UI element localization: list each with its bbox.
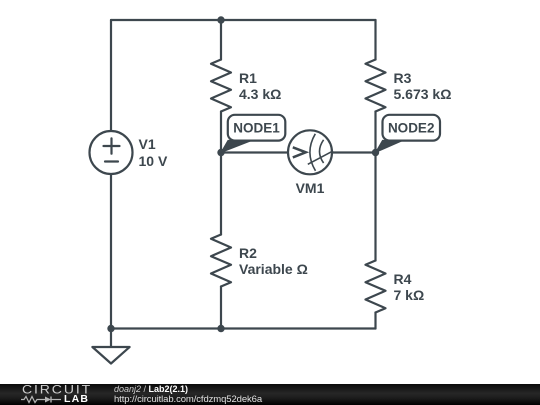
wire right branch R4 to bottom rail <box>374 313 376 329</box>
svg-text:NODE2: NODE2 <box>388 121 435 136</box>
svg-text:10 V: 10 V <box>139 153 168 169</box>
wire middle branch R2 to bottom rail <box>220 287 222 329</box>
wire middle branch top (to R1) <box>220 20 222 60</box>
CircuitLab logo text <box>22 384 92 395</box>
footer bar <box>0 384 540 405</box>
svg-text:Variable Ω: Variable Ω <box>239 261 308 277</box>
wire ground stem <box>110 329 112 348</box>
svg-text:R2: R2 <box>239 245 257 261</box>
wire middle branch R1 to NODE1 <box>220 112 222 153</box>
junction NODE2 <box>372 149 379 156</box>
resistor R2 <box>211 235 231 287</box>
junction at bottom rail / ground <box>107 325 114 332</box>
wire left vertical V1 top <box>110 20 112 131</box>
wire right branch top (to R3) <box>374 20 376 60</box>
LAB text <box>64 394 89 404</box>
resistor R3 <box>366 60 386 112</box>
junction at bottom rail / R2 branch <box>217 325 224 332</box>
footer title line <box>114 385 188 394</box>
svg-text:R4: R4 <box>394 271 412 287</box>
wire bottom horizontal rail <box>111 327 376 329</box>
junction at top rail / R1 branch <box>217 16 224 23</box>
resistor R1 <box>211 60 231 112</box>
ground <box>92 347 129 364</box>
svg-text:R3: R3 <box>394 70 412 86</box>
wire right branch R3 to NODE2 <box>374 112 376 153</box>
svg-text:VM1: VM1 <box>296 180 325 196</box>
wire middle branch NODE1 to R2 <box>220 153 222 235</box>
svg-text:NODE1: NODE1 <box>233 121 280 136</box>
svg-text:7 kΩ: 7 kΩ <box>394 287 425 303</box>
svg-text:V1: V1 <box>139 136 156 152</box>
junction NODE1 <box>217 149 224 156</box>
resistor R4 <box>366 261 386 313</box>
wire top horizontal from V1 top to R3 top <box>111 19 376 21</box>
voltmeter VM1 <box>288 130 333 174</box>
wire left vertical V1 bottom to bottom rail <box>110 175 112 329</box>
wire NODE1 to voltmeter left <box>221 151 288 153</box>
wire voltmeter right to NODE2 <box>332 151 376 153</box>
voltage source V1 <box>90 131 133 174</box>
svg-text:R1: R1 <box>239 70 257 86</box>
wire right branch NODE2 to R4 <box>374 153 376 261</box>
node NODE1 callout <box>221 115 285 153</box>
svg-text:4.3 kΩ: 4.3 kΩ <box>239 86 281 102</box>
node NODE2 callout <box>376 115 441 153</box>
CircuitLab logo mark (resistor + diode) <box>21 395 65 404</box>
svg-text:5.673 kΩ: 5.673 kΩ <box>394 86 452 102</box>
footer url line <box>114 395 262 404</box>
